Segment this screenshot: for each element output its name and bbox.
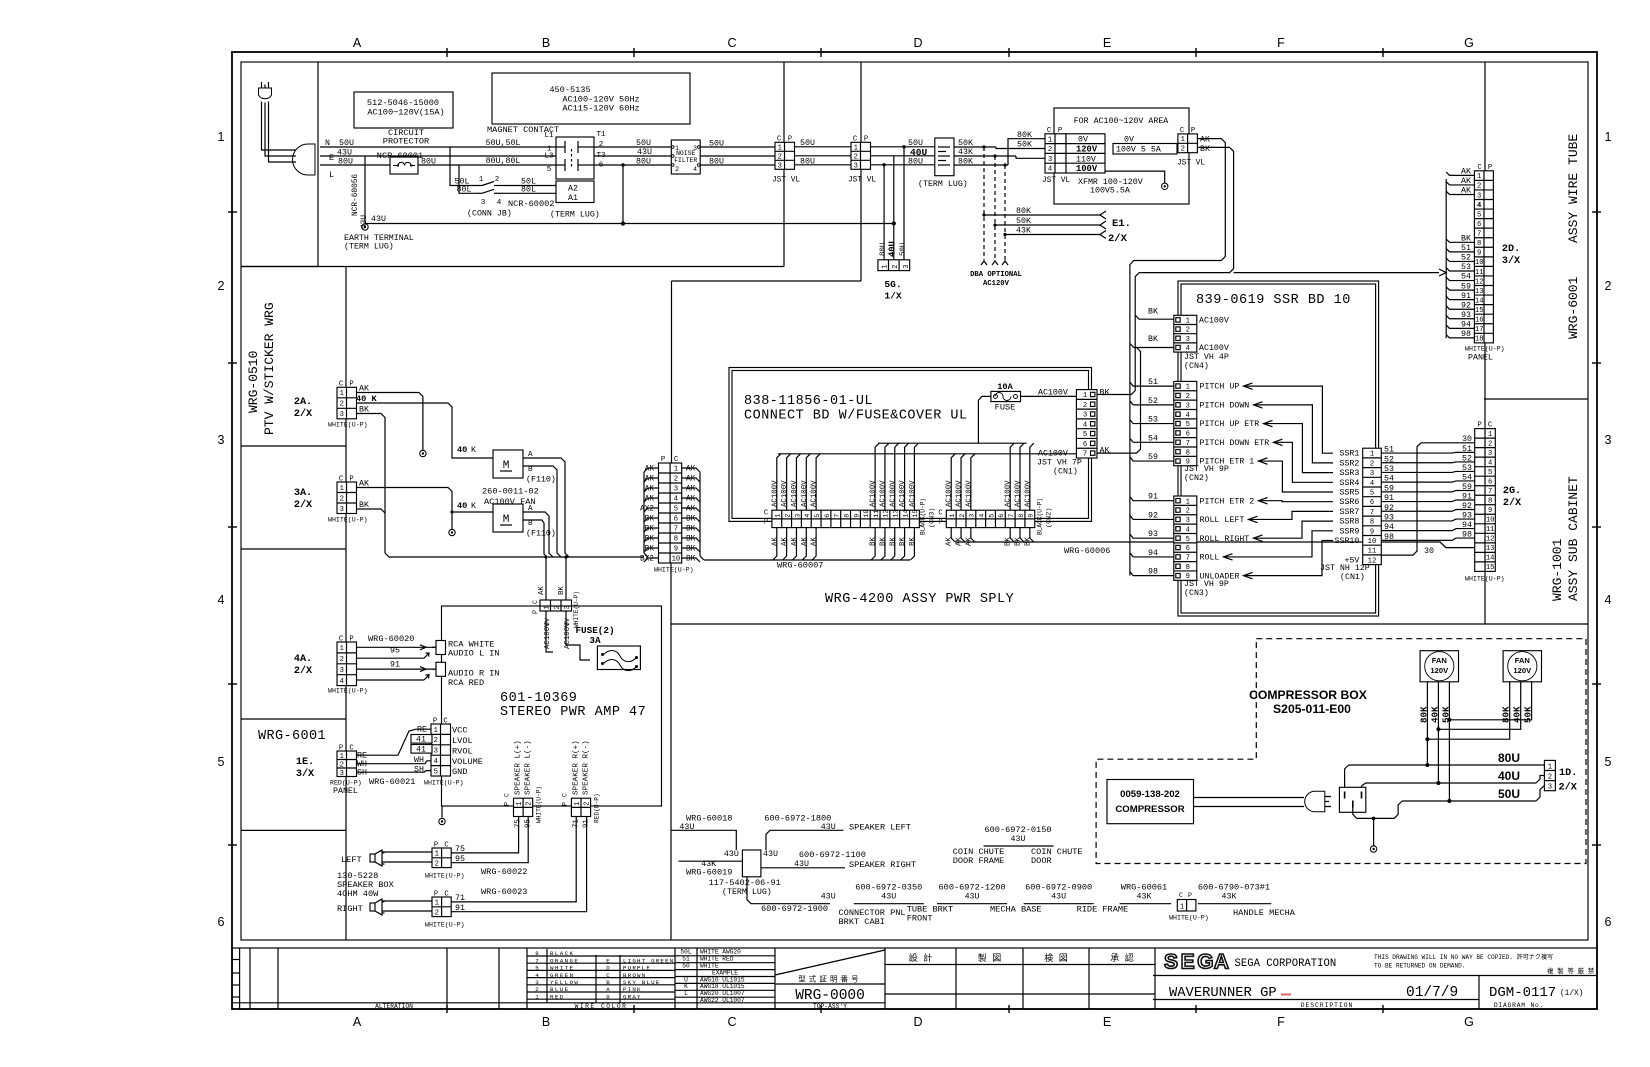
svg-text:2: 2 bbox=[892, 265, 900, 269]
title block divider bbox=[955, 948, 957, 1009]
svg-text:6: 6 bbox=[1370, 499, 1374, 507]
svg-text:80K: 80K bbox=[1017, 131, 1032, 140]
grid tick top bbox=[633, 48, 635, 57]
svg-text:80U: 80U bbox=[908, 157, 923, 166]
wire fuseconn1 to fuse bbox=[546, 611, 553, 652]
svg-text:WHITE(U-P): WHITE(U-P) bbox=[654, 567, 694, 574]
svg-text:2G.: 2G. bbox=[1503, 486, 1521, 497]
svg-text:3: 3 bbox=[1186, 517, 1190, 525]
title block divider bbox=[498, 948, 500, 1009]
svg-text:3/X: 3/X bbox=[1502, 255, 1521, 267]
svg-text:94: 94 bbox=[1462, 521, 1472, 530]
svg-text:AK: AK bbox=[538, 586, 546, 595]
svg-text:3: 3 bbox=[434, 748, 438, 756]
svg-text:80U: 80U bbox=[709, 158, 724, 167]
node fan 50K bbox=[1447, 718, 1451, 722]
svg-text:BK: BK bbox=[899, 537, 907, 546]
svg-text:BK: BK bbox=[1024, 537, 1032, 546]
fan 2 box bbox=[1503, 651, 1541, 682]
magnet contact box upper bbox=[556, 137, 594, 179]
svg-text:(CN3): (CN3) bbox=[929, 508, 937, 528]
svg-text:RED(U-P): RED(U-P) bbox=[593, 793, 600, 823]
svg-text:WRG-4200 ASSY PWR SPLY: WRG-4200 ASSY PWR SPLY bbox=[825, 592, 1014, 607]
xfmr secondary box bbox=[1113, 144, 1177, 155]
svg-text:50U,50L: 50U,50L bbox=[486, 139, 521, 148]
svg-text:51: 51 bbox=[1148, 378, 1158, 387]
svg-text:A: A bbox=[528, 451, 533, 459]
svg-text:2: 2 bbox=[675, 166, 679, 173]
grid tick left bbox=[228, 362, 237, 364]
fan motor M2 (F110) bbox=[493, 504, 523, 532]
svg-text:WRG-6001: WRG-6001 bbox=[258, 729, 326, 744]
svg-text:3: 3 bbox=[1186, 402, 1190, 410]
svg-text:120V: 120V bbox=[1513, 666, 1532, 675]
svg-text:4: 4 bbox=[1477, 202, 1482, 210]
svg-text:JST VH 7P: JST VH 7P bbox=[1037, 459, 1082, 468]
svg-text:50U: 50U bbox=[636, 139, 651, 148]
svg-text:94: 94 bbox=[1461, 321, 1471, 330]
grid tick left bbox=[228, 211, 237, 213]
svg-text:1: 1 bbox=[340, 753, 344, 761]
svg-text:WHITE(U-P): WHITE(U-P) bbox=[328, 517, 368, 524]
svg-text:C: C bbox=[562, 793, 569, 797]
svg-text:1: 1 bbox=[340, 645, 344, 653]
svg-text:(CN4): (CN4) bbox=[1184, 361, 1209, 371]
svg-text:DESCRIPTION: DESCRIPTION bbox=[1301, 1002, 1354, 1009]
svg-text:2: 2 bbox=[1477, 183, 1481, 191]
svg-text:AC100V: AC100V bbox=[965, 480, 973, 507]
svg-text:4: 4 bbox=[340, 678, 344, 686]
svg-text:AK: AK bbox=[811, 537, 819, 546]
svg-text:2/X: 2/X bbox=[294, 408, 313, 420]
svg-text:50U: 50U bbox=[800, 139, 815, 148]
E1 arrowheads bbox=[1100, 211, 1106, 219]
node 40U tap bbox=[1436, 781, 1440, 785]
title block divider bbox=[526, 948, 528, 1009]
title block divider bbox=[249, 948, 251, 1009]
connector JST VL 2P sec bbox=[1178, 134, 1198, 153]
svg-text:3: 3 bbox=[1548, 784, 1552, 792]
svg-text:43U: 43U bbox=[881, 893, 896, 902]
bus AC100V lower bbox=[778, 453, 1076, 455]
SEGA logo bbox=[1164, 951, 1229, 974]
wire fan2 A return bbox=[540, 512, 553, 557]
compressor box dashed enclosure bbox=[1096, 639, 1586, 864]
svg-text:PURPLE: PURPLE bbox=[623, 965, 651, 972]
svg-text:3: 3 bbox=[1605, 433, 1612, 447]
svg-text:59: 59 bbox=[1461, 282, 1471, 291]
svg-text:DGM-0117: DGM-0117 bbox=[1489, 985, 1556, 1001]
svg-text:838-11856-01-UL: 838-11856-01-UL bbox=[744, 394, 873, 409]
svg-text:40U: 40U bbox=[910, 147, 928, 158]
dashed drop 1 bbox=[983, 147, 985, 260]
svg-text:2: 2 bbox=[784, 514, 792, 518]
svg-text:5G.: 5G. bbox=[884, 279, 901, 290]
svg-text:FOR AC100~120V AREA: FOR AC100~120V AREA bbox=[1074, 117, 1169, 126]
svg-text:SEGA CORPORATION: SEGA CORPORATION bbox=[1235, 958, 1337, 970]
svg-text:40K: 40K bbox=[1429, 706, 1440, 723]
svg-text:BK: BK bbox=[1005, 537, 1013, 546]
svg-text:PITCH ETR 2: PITCH ETR 2 bbox=[1200, 497, 1255, 506]
grid tick right bbox=[1592, 844, 1601, 846]
wire BK branch to 2D bbox=[1234, 272, 1439, 274]
svg-text:3: 3 bbox=[340, 411, 344, 419]
svg-text:A: A bbox=[353, 1015, 362, 1029]
svg-text:40U: 40U bbox=[1498, 769, 1520, 783]
svg-text:3/X: 3/X bbox=[296, 768, 315, 780]
connector 2A bbox=[337, 387, 357, 419]
svg-text:WHITE(U-P): WHITE(U-P) bbox=[328, 422, 368, 429]
svg-text:600-6972-1900: 600-6972-1900 bbox=[761, 904, 828, 914]
svg-text:9: 9 bbox=[853, 514, 861, 518]
svg-text:AK: AK bbox=[686, 466, 696, 474]
svg-text:ALTERATION: ALTERATION bbox=[375, 1003, 413, 1010]
svg-text:K: K bbox=[471, 446, 476, 455]
svg-text:11: 11 bbox=[1475, 269, 1484, 277]
svg-text:DBA OPTIONAL: DBA OPTIONAL bbox=[970, 271, 1022, 279]
svg-text:ORANGE: ORANGE bbox=[550, 957, 579, 964]
svg-text:NCR-60056: NCR-60056 bbox=[352, 174, 360, 216]
svg-text:7: 7 bbox=[834, 514, 842, 518]
svg-text:AC100V: AC100V bbox=[909, 480, 917, 507]
wire 71 run bbox=[451, 817, 576, 902]
svg-text:G: G bbox=[1464, 36, 1474, 50]
connector 1D bbox=[1544, 760, 1555, 790]
svg-text:52: 52 bbox=[1461, 254, 1471, 263]
svg-text:43U: 43U bbox=[763, 850, 778, 859]
connector speaker R out bbox=[571, 798, 590, 816]
wire WH bbox=[357, 761, 432, 764]
svg-text:SSR9: SSR9 bbox=[1339, 527, 1359, 536]
svg-text:80U: 80U bbox=[338, 158, 353, 167]
fan1 wire 50K bbox=[1448, 682, 1450, 801]
grid tick bottom bbox=[446, 1005, 448, 1013]
svg-text:WRG-60019: WRG-60019 bbox=[686, 868, 732, 878]
svg-text:RIDE FRAME: RIDE FRAME bbox=[1077, 905, 1129, 915]
svg-text:BK: BK bbox=[1461, 235, 1471, 244]
svg-text:BK: BK bbox=[870, 537, 878, 546]
wire speaker left - bbox=[382, 861, 432, 863]
svg-text:AC115-120V 60Hz: AC115-120V 60Hz bbox=[562, 104, 639, 114]
xfmr earth wire bbox=[1105, 171, 1165, 183]
dashed drop 2 bbox=[994, 156, 996, 260]
svg-text:2: 2 bbox=[340, 656, 344, 664]
10-pin right merge bus bbox=[699, 472, 701, 556]
wire 50K out bbox=[954, 146, 996, 148]
wire 80U filter out bbox=[700, 164, 775, 166]
svg-text:5: 5 bbox=[1477, 211, 1481, 219]
svg-text:5: 5 bbox=[1186, 536, 1190, 544]
svg-text:YELLOW: YELLOW bbox=[550, 979, 579, 986]
fan1 wire 80K bbox=[1426, 682, 1428, 765]
wire 50U filter out bbox=[700, 146, 775, 148]
circuit protector NCR-60001 bbox=[390, 157, 418, 174]
dba arrows bbox=[981, 261, 987, 265]
svg-text:80K: 80K bbox=[958, 158, 973, 167]
svg-text:MECHA BASE: MECHA BASE bbox=[990, 905, 1042, 915]
svg-text:PITCH DOWN ETR: PITCH DOWN ETR bbox=[1200, 439, 1270, 448]
svg-text:2: 2 bbox=[1488, 440, 1492, 448]
svg-text:SSR10: SSR10 bbox=[1334, 537, 1359, 546]
svg-text:AC100V: AC100V bbox=[1038, 389, 1068, 398]
svg-text:S: S bbox=[1164, 951, 1178, 974]
svg-text:51: 51 bbox=[1384, 446, 1394, 455]
wire 40U bbox=[1362, 783, 1366, 787]
wire socket pin1 up bbox=[1345, 765, 1349, 787]
earth symbol 2A bbox=[420, 450, 426, 456]
svg-text:7: 7 bbox=[1083, 451, 1087, 459]
svg-text:7: 7 bbox=[1488, 488, 1492, 496]
2D bus and pin wires bbox=[1445, 179, 1447, 338]
svg-text:LVOL: LVOL bbox=[452, 736, 473, 746]
earth drop wire bbox=[364, 156, 366, 224]
wire 80K rise bbox=[996, 147, 1045, 149]
svg-text:30: 30 bbox=[1424, 547, 1434, 556]
wire E1 43K bbox=[1005, 234, 1100, 236]
connector 1-pin WHITE(U-P) bbox=[1177, 900, 1196, 912]
svg-text:93: 93 bbox=[1462, 512, 1472, 521]
svg-text:117-5402-06-91: 117-5402-06-91 bbox=[709, 878, 781, 888]
svg-text:1: 1 bbox=[1186, 498, 1190, 506]
node fan 80K bbox=[1425, 737, 1429, 741]
wire BK drop to fuse conn bbox=[565, 557, 567, 600]
wire BK sec to 2D bus bbox=[1097, 147, 1234, 394]
svg-text:WHITE(U-P): WHITE(U-P) bbox=[1169, 915, 1209, 922]
svg-text:43U: 43U bbox=[371, 215, 386, 224]
svg-text:E1.: E1. bbox=[1112, 218, 1131, 230]
svg-text:3: 3 bbox=[969, 514, 977, 518]
title block divider bbox=[674, 948, 676, 1009]
wire speaker right + bbox=[382, 900, 432, 902]
left margin cell line y446 bbox=[241, 445, 346, 447]
svg-text:E: E bbox=[606, 957, 610, 964]
svg-text:WRG-60022: WRG-60022 bbox=[481, 867, 527, 877]
left margin cell line y830 bbox=[241, 829, 346, 831]
svg-text:1: 1 bbox=[1181, 136, 1185, 144]
svg-text:5: 5 bbox=[1488, 469, 1492, 477]
svg-text:A: A bbox=[1214, 951, 1229, 974]
boxed 41 b bbox=[411, 745, 432, 754]
grid tick top bbox=[446, 48, 448, 57]
svg-text:13: 13 bbox=[893, 510, 901, 518]
title block divider bbox=[884, 948, 886, 1009]
connector 4A bbox=[337, 642, 357, 686]
svg-text:P: P bbox=[938, 519, 942, 527]
svg-text:C: C bbox=[727, 36, 736, 50]
svg-text:98: 98 bbox=[1384, 533, 1394, 542]
svg-text:C: C bbox=[606, 972, 610, 979]
wire speaker right line bbox=[761, 867, 845, 869]
grid tick left bbox=[228, 844, 237, 846]
svg-text:93: 93 bbox=[1384, 513, 1394, 522]
svg-text:検 図: 検 図 bbox=[1044, 952, 1067, 964]
svg-text:2: 2 bbox=[959, 514, 967, 518]
wire fan1 B return bbox=[540, 466, 561, 557]
svg-text:2: 2 bbox=[340, 401, 344, 409]
boxed 41 a bbox=[411, 735, 432, 744]
wire 50U drop to 5G bbox=[903, 147, 905, 260]
wire fuse feed drop bbox=[978, 396, 991, 443]
svg-text:43U: 43U bbox=[1011, 835, 1026, 844]
svg-text:AK: AK bbox=[686, 476, 696, 484]
svg-text:型式証明番号: 型式証明番号 bbox=[798, 975, 862, 985]
svg-text:4: 4 bbox=[1370, 480, 1374, 488]
svg-text:52: 52 bbox=[1148, 397, 1158, 406]
svg-text:53: 53 bbox=[1462, 464, 1472, 473]
svg-text:8: 8 bbox=[535, 950, 539, 957]
grid tick right bbox=[1592, 362, 1601, 364]
svg-text:9: 9 bbox=[1488, 507, 1492, 515]
connector 10-pin WHITE(U-P) bbox=[659, 463, 682, 563]
title block divider bbox=[1088, 948, 1090, 1009]
svg-text:AC100V: AC100V bbox=[956, 480, 964, 507]
connector JST VL 2 bbox=[851, 142, 871, 169]
svg-text:2: 2 bbox=[435, 860, 439, 868]
wire V1 vertical bbox=[670, 563, 672, 940]
transformer area box bbox=[1054, 108, 1189, 204]
svg-text:50K: 50K bbox=[1016, 217, 1031, 226]
svg-text:(TERM LUG): (TERM LUG) bbox=[918, 179, 968, 189]
model cell diagonal bbox=[775, 950, 885, 975]
svg-text:01/7/9: 01/7/9 bbox=[1406, 985, 1458, 1001]
svg-text:17: 17 bbox=[1475, 326, 1484, 334]
fan2 wire 40K bbox=[1438, 682, 1520, 730]
contact link dashed bbox=[571, 149, 573, 169]
svg-text:6: 6 bbox=[1477, 221, 1481, 229]
grid tick right bbox=[1592, 526, 1601, 528]
connector 3A bbox=[337, 482, 357, 514]
svg-text:59: 59 bbox=[1462, 483, 1472, 492]
arrow 4A-4 bbox=[424, 675, 429, 680]
section divider D2 horizontal bbox=[672, 280, 862, 282]
model cell line bbox=[775, 983, 885, 985]
svg-text:93: 93 bbox=[1148, 530, 1158, 539]
svg-text:E: E bbox=[329, 154, 334, 163]
svg-text:(CN2): (CN2) bbox=[1184, 473, 1209, 483]
svg-text:BLACK(U-P): BLACK(U-P) bbox=[920, 498, 927, 535]
wire 80U drop to 5G bbox=[883, 165, 885, 260]
wire 75 run bbox=[451, 817, 518, 853]
svg-text:SPEAKER L(+): SPEAKER L(+) bbox=[515, 740, 523, 795]
wire cn1 pin7 AK right bbox=[1097, 348, 1141, 454]
section divider D2 vertical main bbox=[671, 281, 673, 463]
compressor box bbox=[1107, 780, 1194, 824]
svg-text:1: 1 bbox=[435, 851, 439, 859]
svg-text:1: 1 bbox=[574, 802, 582, 806]
svg-text:2: 2 bbox=[434, 737, 438, 745]
svg-text:AC100V: AC100V bbox=[1005, 480, 1013, 507]
connector CN2 JST VH 9P bbox=[1174, 381, 1197, 465]
fan motor M1 (F110) bbox=[493, 450, 523, 478]
svg-text:43U: 43U bbox=[821, 893, 836, 902]
compressor cord bbox=[1194, 797, 1305, 799]
svg-text:2D.: 2D. bbox=[1502, 244, 1520, 255]
svg-text:2A.: 2A. bbox=[294, 397, 312, 408]
AC inlet socket bbox=[293, 144, 316, 175]
svg-text:F: F bbox=[1277, 1015, 1285, 1029]
SSR BD inner box bbox=[1181, 284, 1376, 613]
connector CN3 JST VH 9P bbox=[1174, 496, 1197, 580]
svg-text:AK: AK bbox=[686, 496, 696, 504]
svg-text:4: 4 bbox=[497, 199, 502, 207]
svg-text:600-6790-073#1: 600-6790-073#1 bbox=[1198, 883, 1270, 893]
svg-text:BLACK(U-P): BLACK(U-P) bbox=[1037, 498, 1044, 535]
connect board inner box bbox=[732, 371, 1089, 519]
svg-text:BK: BK bbox=[889, 537, 897, 546]
svg-text:2: 2 bbox=[535, 986, 539, 993]
svg-text:80U: 80U bbox=[879, 243, 887, 256]
svg-text:JST VL: JST VL bbox=[772, 177, 800, 185]
grid tick left bbox=[228, 683, 237, 685]
svg-text:3: 3 bbox=[903, 265, 911, 269]
connector 2D PANEL bbox=[1474, 171, 1493, 343]
svg-text:SH: SH bbox=[357, 769, 367, 778]
arrow into RCA R bbox=[420, 667, 426, 672]
svg-text:DOOR FRAME: DOOR FRAME bbox=[953, 856, 1005, 866]
svg-text:600-6972-1100: 600-6972-1100 bbox=[799, 850, 866, 860]
alteration tick bbox=[232, 959, 240, 961]
svg-text:WRG-60023: WRG-60023 bbox=[481, 887, 527, 897]
svg-text:3: 3 bbox=[1477, 192, 1481, 200]
svg-text:80U: 80U bbox=[1498, 751, 1520, 765]
svg-text:COMPRESSOR: COMPRESSOR bbox=[1115, 804, 1184, 815]
svg-text:80K: 80K bbox=[1418, 706, 1429, 723]
svg-text:16: 16 bbox=[1475, 317, 1484, 325]
svg-text:PITCH UP ETR: PITCH UP ETR bbox=[1200, 420, 1260, 429]
svg-text:8: 8 bbox=[1186, 449, 1190, 457]
svg-text:AC100V: AC100V bbox=[811, 480, 819, 507]
svg-text:G: G bbox=[1197, 951, 1213, 974]
svg-text:6: 6 bbox=[824, 514, 832, 518]
terminal lug stack bbox=[935, 138, 954, 176]
svg-text:43U: 43U bbox=[794, 860, 809, 869]
svg-text:3: 3 bbox=[778, 162, 782, 170]
wire 3A BK bbox=[357, 509, 386, 513]
svg-text:8: 8 bbox=[1477, 240, 1481, 248]
svg-text:WRG-60006: WRG-60006 bbox=[1064, 546, 1110, 556]
svg-text:STEREO PWR AMP 47: STEREO PWR AMP 47 bbox=[500, 705, 646, 720]
svg-text:13: 13 bbox=[1475, 288, 1484, 296]
svg-text:4: 4 bbox=[218, 593, 225, 607]
left margin cell line y719 bbox=[241, 718, 346, 720]
svg-text:15: 15 bbox=[1475, 307, 1484, 315]
wire 600-6972-1900 bbox=[747, 877, 830, 904]
svg-text:AC100V: AC100V bbox=[1199, 344, 1229, 353]
wire 43U jst1-2 bbox=[795, 155, 852, 157]
svg-text:260-0011-02: 260-0011-02 bbox=[482, 487, 539, 497]
dgm divider bbox=[1478, 976, 1480, 1010]
svg-text:1: 1 bbox=[340, 485, 344, 493]
svg-text:SPEAKER LEFT: SPEAKER LEFT bbox=[849, 823, 911, 833]
svg-text:PINK: PINK bbox=[623, 986, 642, 993]
wires CN3 left 91-98 bbox=[1130, 497, 1174, 501]
svg-text:4: 4 bbox=[434, 758, 438, 766]
svg-text:WRG-60061: WRG-60061 bbox=[1121, 883, 1167, 893]
svg-text:41: 41 bbox=[416, 746, 426, 755]
svg-text:1: 1 bbox=[854, 144, 858, 152]
contact poles row1 bbox=[564, 141, 566, 153]
svg-text:AC100V: AC100V bbox=[1199, 317, 1229, 326]
svg-text:2: 2 bbox=[435, 909, 439, 917]
svg-text:JST VH 9P: JST VH 9P bbox=[1184, 580, 1229, 589]
svg-text:5: 5 bbox=[988, 514, 996, 518]
svg-text:4: 4 bbox=[535, 972, 539, 979]
svg-text:43U: 43U bbox=[637, 148, 652, 157]
fan M1 terminals bbox=[523, 457, 540, 459]
svg-text:92: 92 bbox=[1462, 502, 1472, 511]
svg-text:THIS DRAWING WILL IN NO WAY BE: THIS DRAWING WILL IN NO WAY BE COPIED. 許… bbox=[1374, 953, 1553, 961]
svg-text:11: 11 bbox=[1486, 526, 1495, 534]
